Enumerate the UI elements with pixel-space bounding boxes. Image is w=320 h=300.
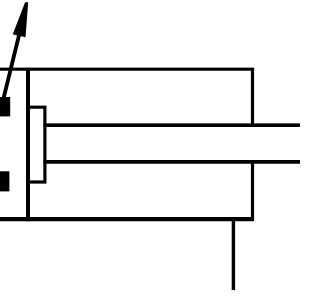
port connection line	[232, 219, 235, 290]
piston rod lower line	[43, 160, 300, 164]
cushion block upper (filled)	[0, 97, 10, 116]
cushion block lower (filled)	[0, 171, 9, 191]
cylinder body bottom wall	[0, 217, 254, 221]
adjustability arrow head	[13, 2, 29, 37]
piston rod upper line	[43, 123, 300, 127]
cushion boss rectangle	[28, 107, 45, 182]
cylinder right cap lower segment	[251, 160, 254, 218]
piston plate	[26, 68, 30, 222]
adjustability arrow shaft	[4, 32, 20, 99]
cylinder body top wall and right cap upper segment	[0, 69, 253, 127]
